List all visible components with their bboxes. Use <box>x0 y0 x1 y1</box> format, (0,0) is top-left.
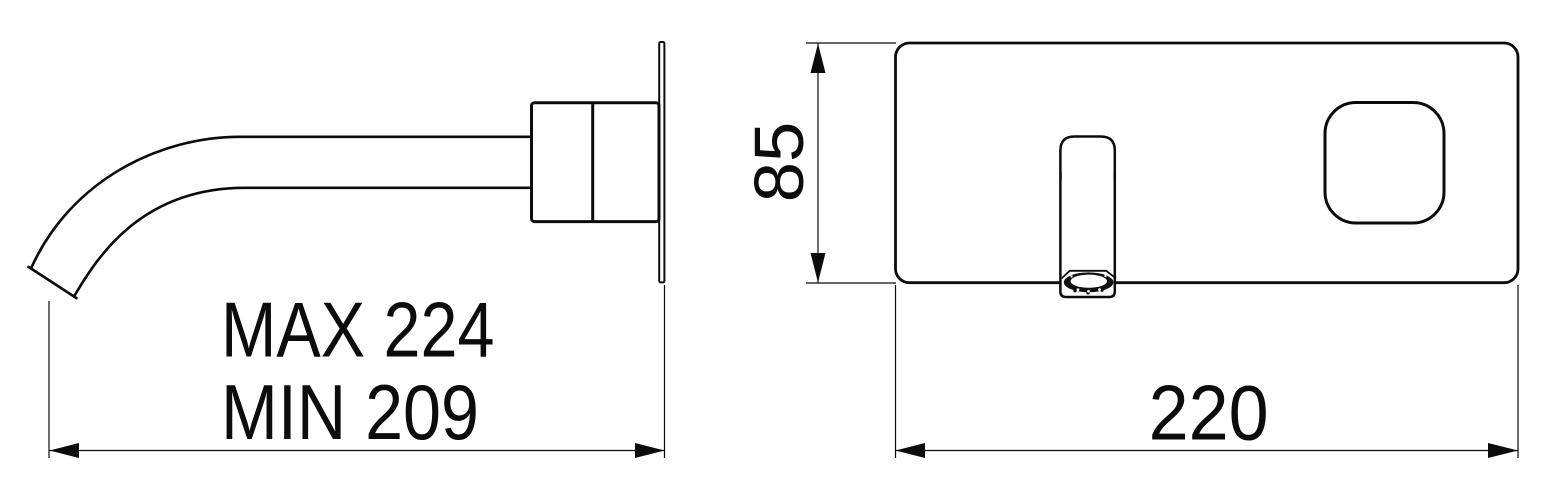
svg-text:85: 85 <box>740 122 818 203</box>
svg-text:MIN 209: MIN 209 <box>221 368 479 456</box>
svg-text:MAX 224: MAX 224 <box>221 285 495 373</box>
svg-text:220: 220 <box>1149 369 1269 457</box>
